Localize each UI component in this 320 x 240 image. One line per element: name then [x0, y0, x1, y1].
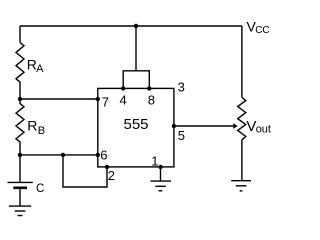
node trigger junction	[61, 153, 65, 157]
capacitor C	[8, 182, 33, 206]
wire Vcc top rail	[20, 25, 242, 27]
svg-text:3: 3	[178, 80, 185, 95]
svg-text:1: 1	[151, 154, 158, 169]
node pin 7	[96, 97, 100, 101]
wire RA bottom to node A	[19, 82, 21, 99]
wire left vertical to RA	[19, 26, 21, 43]
IC 555 timer box	[98, 88, 174, 166]
svg-text:B: B	[38, 125, 45, 137]
ground (pin 1)	[151, 181, 172, 191]
wire right vertical from Vcc	[241, 26, 243, 97]
node A junction RA-RB	[18, 97, 22, 101]
svg-text:A: A	[36, 63, 44, 75]
ground (Rout)	[231, 181, 251, 191]
svg-text:7: 7	[102, 94, 109, 109]
wire pin 5 output to arrow	[174, 125, 233, 127]
wire pin 1 to ground	[160, 167, 162, 181]
node pin 1	[158, 165, 162, 169]
node junction top rail	[134, 24, 138, 28]
svg-text:4: 4	[120, 93, 127, 108]
arrowhead to Vout	[233, 123, 238, 129]
svg-text:C: C	[36, 183, 44, 195]
wire node A to pin 7	[20, 98, 98, 100]
node pin 6	[96, 153, 100, 157]
svg-text:CC: CC	[255, 25, 269, 36]
ground (capacitor)	[9, 206, 31, 215]
node pin 5	[172, 124, 176, 128]
node pin 4	[121, 86, 125, 90]
node pin 2	[105, 165, 109, 169]
wire trigger detour to pin 2	[63, 155, 107, 187]
node pin 8	[147, 86, 151, 90]
resistor RA	[16, 43, 24, 83]
wire top node down to jumper	[135, 26, 137, 71]
svg-text:R: R	[27, 118, 37, 134]
svg-text:out: out	[256, 123, 271, 135]
svg-text:8: 8	[148, 92, 155, 107]
wire node B to pin 6	[20, 154, 98, 156]
wire node B down to capacitor	[19, 155, 21, 182]
wire Rout bottom to ground	[241, 140, 243, 181]
node B junction RB-C	[18, 153, 22, 157]
resistor RB	[16, 99, 24, 155]
svg-text:555: 555	[124, 116, 149, 133]
svg-text:5: 5	[178, 128, 185, 143]
wire jumper pins 4-8	[123, 71, 149, 89]
svg-text:2: 2	[108, 168, 115, 183]
resistor Rout vertical	[238, 97, 246, 139]
svg-text:6: 6	[100, 148, 107, 163]
